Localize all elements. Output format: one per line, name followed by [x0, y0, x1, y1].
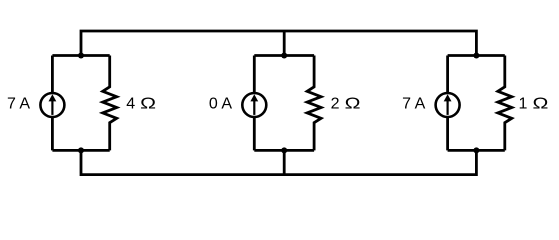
svg-text:0 A: 0 A — [209, 96, 232, 113]
svg-text:7 A: 7 A — [402, 96, 425, 113]
junction: branch 3 bottom node — [473, 147, 479, 153]
junction: branch 2 bottom node — [281, 147, 287, 153]
wire: branch 3 top bar — [448, 54, 505, 57]
wire: branch 2 top bar — [254, 54, 314, 57]
wire: top stub branch 2 — [283, 31, 286, 56]
svg-text:1: 1 — [519, 96, 528, 113]
wire: bottom stub branch 2 — [283, 150, 286, 174]
svg-text:Ω: Ω — [533, 96, 549, 113]
wire: branch 1 bottom bar — [52, 149, 109, 152]
current source I3 (7 A) — [436, 93, 460, 117]
junction: branch 3 top node — [473, 53, 479, 59]
junction: branch 1 bottom node — [78, 147, 84, 153]
wire: bottom rail — [81, 150, 476, 174]
junction: branch 1 top node — [78, 53, 84, 59]
wire: branch 3 bottom bar — [448, 149, 505, 152]
resistor R2 (2 ohm) — [307, 56, 321, 151]
wire: branch 2 left side (current source leads) — [253, 56, 256, 151]
wire: branch 1 left side (current source leads) — [51, 56, 54, 151]
svg-text:7 A: 7 A — [7, 96, 30, 113]
wire: branch 2 bottom bar — [254, 149, 314, 152]
svg-text:Ω: Ω — [345, 96, 361, 113]
svg-text:4: 4 — [126, 96, 135, 113]
resistor R1 (4 ohm) — [103, 56, 117, 151]
current source I2 (0 A) — [242, 93, 266, 117]
wire: branch 1 top bar — [52, 54, 109, 57]
wire: top rail — [81, 31, 476, 56]
current source I1 (7 A) — [40, 93, 64, 117]
wire: branch 3 left side (current source leads) — [446, 56, 449, 151]
resistor R3 (1 ohm) — [498, 56, 512, 151]
svg-text:2: 2 — [331, 96, 340, 113]
junction: branch 2 top node — [281, 53, 287, 59]
svg-text:Ω: Ω — [140, 96, 156, 113]
